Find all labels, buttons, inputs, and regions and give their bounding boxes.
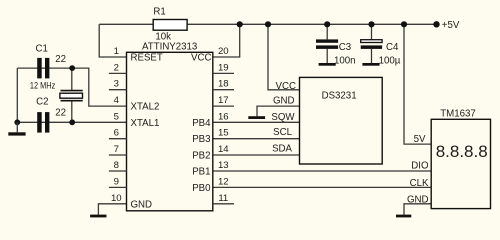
svg-text:5: 5 [114, 111, 119, 122]
junction node crystal top [69, 65, 75, 71]
svg-text:CLK: CLK [410, 178, 429, 189]
capacitor C2 plates [37, 112, 49, 133]
capacitor C1 plates [37, 58, 49, 79]
svg-text:19: 19 [218, 62, 229, 73]
capacitor C4 bottom plate [361, 45, 382, 49]
resistor R1 [153, 20, 187, 31]
svg-text:PB1: PB1 [192, 167, 210, 178]
wire DS3231 GND to ground [257, 106, 300, 116]
capacitor C4 top plate (electrolytic +) [361, 40, 382, 43]
svg-text:C3: C3 [339, 42, 351, 53]
wire pin 16 PB4 to DS3231 SQW [213, 121, 300, 123]
U1 pin 8 stub [109, 160, 127, 171]
junction node left ground [14, 119, 20, 125]
svg-text:9: 9 [114, 176, 119, 187]
svg-text:C1: C1 [36, 43, 48, 54]
U1 pin 17 stub [213, 95, 234, 106]
+5V power rail wire [99, 23, 436, 25]
wire C4 to ground [371, 49, 373, 63]
wire C3 to ground [326, 49, 328, 63]
junction node on rail at C4 [368, 21, 374, 27]
junction node on rail at DS3231 VCC drop [265, 21, 271, 27]
junction node crystal bottom [69, 119, 75, 125]
svg-text:15: 15 [218, 128, 229, 139]
svg-text:PB3: PB3 [192, 134, 210, 145]
ground symbol at TM1637 GND [396, 215, 411, 218]
+5V terminal dot [433, 21, 439, 27]
svg-text:18: 18 [218, 79, 229, 90]
crystal X1 top plate [61, 90, 83, 92]
svg-text:22: 22 [55, 54, 66, 65]
IC U1 ATTINY2313 body [127, 52, 213, 211]
svg-text:PB4: PB4 [192, 118, 211, 129]
ground symbol at C3 [319, 63, 336, 66]
svg-text:PB0: PB0 [192, 183, 211, 194]
svg-text:SCL: SCL [273, 127, 292, 138]
ground symbol at U1 pin 10 [90, 215, 106, 218]
svg-text:12: 12 [218, 176, 229, 187]
svg-text:SQW: SQW [271, 112, 295, 123]
wire pin 15 PB3 to DS3231 SCL [213, 138, 300, 140]
junction node on rail at C3 [324, 21, 330, 27]
svg-text:DS3231: DS3231 [322, 90, 357, 101]
wire pin 14 PB2 to DS3231 SDA [213, 154, 300, 156]
svg-text:11: 11 [218, 193, 228, 204]
wire pin 12 PB0 to TM1637 CLK [213, 186, 431, 188]
svg-text:GND: GND [407, 194, 429, 205]
svg-text:16: 16 [218, 111, 229, 122]
svg-text:4: 4 [114, 95, 120, 106]
svg-text:17: 17 [218, 95, 229, 106]
svg-text:SDA: SDA [272, 144, 292, 155]
ground symbol at C4 [362, 63, 379, 66]
junction node on rail at TM1637 5V [401, 21, 407, 27]
svg-text:7: 7 [114, 144, 119, 155]
svg-text:3: 3 [114, 79, 119, 90]
wire C1 line to XTAL2 pin 4 [72, 68, 126, 106]
svg-text:VCC: VCC [191, 53, 211, 64]
capacitor C3 top plate [316, 39, 338, 42]
wire from rail down to pin 1 RESET [99, 24, 126, 57]
wire crystal vertical bottom [71, 101, 73, 123]
svg-text:DIO: DIO [411, 160, 429, 171]
U1 pin 18 stub [213, 79, 234, 90]
svg-text:GND: GND [273, 96, 295, 107]
U1 pin 2 stub [109, 62, 127, 73]
junction node on rail at VCC drop [237, 21, 243, 27]
wire DS3231 VCC to rail [268, 24, 300, 90]
svg-text:XTAL2: XTAL2 [131, 102, 160, 113]
wire from rail junction down to pin 20 VCC [213, 24, 240, 57]
svg-text:12 MHz: 12 MHz [30, 80, 56, 91]
crystal X1 body [60, 93, 83, 98]
U1 pin 3 stub [109, 79, 127, 90]
ground symbol at DS3231 GND [248, 116, 265, 119]
wire C4 to rail [371, 24, 373, 39]
svg-text:PB2: PB2 [192, 151, 210, 162]
U1 pin 7 stub [109, 144, 127, 155]
svg-text:GND: GND [131, 199, 153, 210]
wire pin 13 PB1 to TM1637 DIO [213, 170, 431, 172]
svg-text:RESET: RESET [131, 53, 163, 64]
svg-text:14: 14 [218, 144, 229, 155]
wire TM1637 5V to rail [404, 24, 431, 144]
svg-text:2: 2 [114, 62, 119, 73]
svg-text:VCC: VCC [276, 81, 296, 92]
svg-text:22: 22 [55, 108, 66, 119]
U1 pin 6 stub [109, 128, 127, 139]
wire TM1637 GND to ground [404, 204, 431, 215]
wire left vertical C1 to C2 [16, 68, 18, 122]
U1 pin 9 stub [109, 176, 127, 187]
wire pin 10 GND to ground [98, 204, 126, 215]
svg-text:ATTINY2313: ATTINY2313 [142, 42, 197, 53]
U1 pin 19 stub [213, 62, 234, 73]
svg-text:C4: C4 [386, 42, 399, 53]
svg-text:1: 1 [114, 46, 119, 57]
svg-text:+5V: +5V [442, 20, 460, 31]
ground symbol left (crystal) [8, 122, 25, 135]
svg-text:R1: R1 [153, 6, 165, 17]
svg-text:100µ: 100µ [379, 55, 401, 66]
svg-text:XTAL1: XTAL1 [131, 118, 160, 129]
svg-text:8.8.8.8: 8.8.8.8 [436, 142, 488, 161]
wire C2 line to XTAL1 pin 5 [17, 121, 126, 123]
svg-text:6: 6 [114, 128, 119, 139]
TM1637 module box [431, 119, 490, 208]
DS3231 module box [300, 77, 383, 164]
svg-text:20: 20 [218, 46, 229, 57]
svg-text:8: 8 [114, 160, 119, 171]
wire C1 left segment [17, 67, 72, 69]
svg-text:100n: 100n [334, 55, 356, 66]
U1 pin 11 stub [213, 193, 234, 204]
crystal X1 bottom plate [61, 100, 83, 102]
wire C3 to rail [326, 24, 328, 39]
svg-text:TM1637: TM1637 [440, 108, 476, 119]
svg-text:5V: 5V [414, 134, 426, 145]
svg-text:13: 13 [218, 160, 229, 171]
capacitor C3 bottom plate [316, 45, 338, 49]
wire crystal vertical top [71, 68, 73, 91]
svg-text:C2: C2 [36, 97, 48, 108]
svg-text:10: 10 [111, 193, 122, 204]
